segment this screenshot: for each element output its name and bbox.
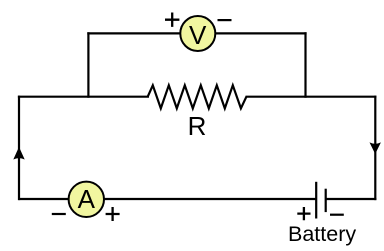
svg-text:V: V: [189, 20, 207, 50]
polarity - (voltmeter right): [218, 19, 232, 21]
wire: voltmeter branch left vertical drop: [87, 32, 89, 98]
wire: middle horizontal, node to resistor: [18, 96, 149, 98]
wire: right vertical: [374, 96, 376, 201]
battery negative plate (short): [325, 189, 327, 212]
polarity - (battery): [330, 214, 344, 216]
svg-text:Battery: Battery: [288, 222, 356, 246]
arrow: current direction up, left wire: [13, 147, 24, 160]
battery positive plate (long): [315, 182, 317, 219]
arrow: current direction down, right wire: [370, 142, 381, 154]
wire: middle horizontal, resistor to node: [246, 96, 377, 98]
polarity - (ammeter left): [52, 213, 66, 215]
polarity + (ammeter right): [106, 207, 120, 221]
polarity + (battery): [297, 207, 310, 220]
wire: top horizontal right of voltmeter: [214, 32, 307, 34]
wire: voltmeter branch right vertical drop: [304, 32, 306, 98]
wire: bottom horizontal, ammeter to battery: [103, 198, 316, 200]
wire: bottom horizontal, node to ammeter: [18, 198, 70, 200]
svg-text:A: A: [78, 184, 96, 214]
resistor R zigzag: [148, 85, 247, 108]
wire: bottom horizontal, battery to right node: [326, 198, 377, 200]
ammeter A body: [69, 182, 104, 217]
wire: top horizontal left of voltmeter: [87, 32, 181, 34]
polarity + (voltmeter left): [165, 13, 179, 27]
wire: left vertical: [18, 96, 20, 201]
svg-text:R: R: [188, 111, 207, 141]
voltmeter V body: [180, 16, 215, 51]
